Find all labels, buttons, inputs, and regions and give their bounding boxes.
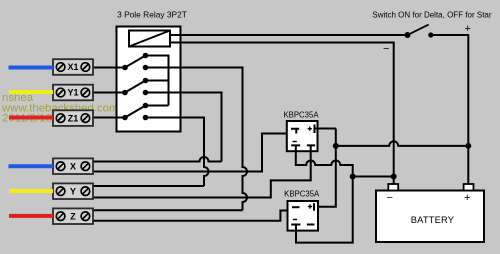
svg-text:−: − (383, 43, 389, 55)
rectifier D1 AC1 terminal mark (291, 129, 299, 134)
wire minus rail to battery minus vertical (353, 176, 394, 178)
svg-text:Z: Z (70, 211, 76, 221)
svg-text:Z1: Z1 (68, 113, 79, 123)
rectifier D2 AC1 terminal mark (292, 206, 300, 208)
svg-text:BATTERY: BATTERY (411, 214, 455, 225)
junction plus rail at battery drop (465, 143, 471, 149)
junction minus bus (350, 174, 356, 180)
relay coil diagonal (129, 31, 170, 47)
wire X-bottom: X block to rectifier1 AC1 riser (93, 129, 296, 172)
rectifier D1 minus terminal bar (291, 145, 300, 151)
wire B: relay delta throw 1 (X1) down to Z-top, hops X-bot and Y-bot (146, 68, 248, 211)
wire Z-top: Z block to B vertical (93, 209, 243, 211)
wire coil terminal 1 to switch (170, 34, 408, 36)
svg-text:Switch ON for Delta, OFF for S: Switch ON for Delta, OFF for Star (372, 11, 491, 20)
relay lower throw contact dots (delta) (143, 65, 149, 71)
wire Z1 block to relay pole 3 (93, 117, 125, 119)
star stub switch 2 (146, 80, 169, 82)
svg-text:+: + (465, 23, 471, 35)
wire rectifier D1 plus output to plus node (315, 128, 336, 130)
wire rectifier D1 minus down, hops AC2 riser and plus bus, to minus bus (296, 151, 353, 243)
battery minus terminal post (388, 184, 398, 191)
battery B1 box (376, 191, 484, 243)
rectifier D1 plus terminal bar (314, 125, 316, 134)
terminal block Y (53, 183, 93, 199)
svg-text:−: − (387, 192, 393, 204)
rectifier D1 AC2 terminal bar (307, 145, 315, 151)
star point rail connecting upper throws (146, 56, 169, 106)
rectifier D1 minus sign (293, 141, 297, 143)
svg-text:X: X (70, 161, 76, 171)
svg-text:Y: Y (70, 186, 76, 196)
phase wire blue X (9, 164, 54, 168)
rectifier D1 box (287, 121, 318, 151)
rectifier D1 plus sign (308, 127, 312, 131)
relay switch 3 lever (125, 106, 146, 118)
wire coil terminal 2 to battery minus (170, 43, 394, 185)
wire plus vertical bus (318, 129, 336, 207)
relay pole contact dots (122, 65, 128, 71)
phase wire blue X1 (9, 66, 54, 70)
wire Z-bottom: Z block to rectifier2 AC1 (93, 207, 296, 221)
rectifier D2 plus terminal bar (313, 203, 315, 211)
rectifier D2 minus sign (293, 219, 297, 221)
wire X1 block to relay pole 1 (93, 67, 125, 69)
relay upper throw contact dots (star) (143, 53, 149, 59)
svg-text:X1: X1 (67, 62, 78, 72)
rectifier D2 AC2 terminal bar (307, 224, 315, 226)
svg-text:KBPC35A: KBPC35A (283, 111, 319, 120)
phase wire yellow Y1 (9, 90, 53, 94)
junction minus at battery wire (391, 174, 397, 180)
svg-text:+: + (464, 192, 470, 204)
wire switch to battery plus (431, 35, 469, 185)
rectifier D2 box (288, 201, 319, 231)
junction plus bus (333, 143, 339, 149)
switch S1 lever (408, 25, 429, 35)
terminal block Z1 (53, 110, 93, 126)
relay switch 1 lever (125, 56, 146, 68)
svg-text:Y1: Y1 (67, 88, 78, 98)
svg-text:KBPC35A: KBPC35A (284, 190, 320, 199)
rectifier D2 plus sign (308, 204, 312, 208)
wire F: relay delta throw 3 (Z1) down to Y-top, hops X-bot (146, 118, 209, 187)
wire D: relay delta throw 2 (Y1) down to X-top (146, 93, 222, 162)
terminal block Y1 (53, 85, 93, 101)
wire Y-bottom: Y block to rectifier1 AC2 riser (93, 146, 311, 198)
phase wire yellow Y (9, 189, 53, 193)
relay U1 outer box (117, 27, 181, 132)
battery plus terminal post (464, 184, 474, 191)
terminal block X (53, 158, 93, 174)
star stub switch 3 (146, 105, 169, 107)
terminal block X1 (53, 59, 93, 75)
switch S1 right contact dot (428, 32, 433, 37)
wire plus rail to battery, hops minus vertical (336, 141, 469, 146)
wire Y1 block to relay pole 2 (93, 92, 125, 94)
phase wire red Z (9, 214, 53, 218)
svg-text:3 Pole Relay 3P2T: 3 Pole Relay 3P2T (117, 10, 187, 20)
wire Y-top: Y block to F vertical (93, 185, 204, 187)
phase wire red Z1 (9, 116, 53, 120)
terminal block Z (53, 208, 93, 224)
relay switch 2 lever (125, 81, 146, 93)
switch S1 left contact dot (405, 32, 411, 38)
rectifier D2 minus terminal bar (291, 225, 300, 231)
relay coil K1 (129, 31, 170, 47)
wire X-top: X block to D vertical, hop over F (93, 157, 222, 162)
